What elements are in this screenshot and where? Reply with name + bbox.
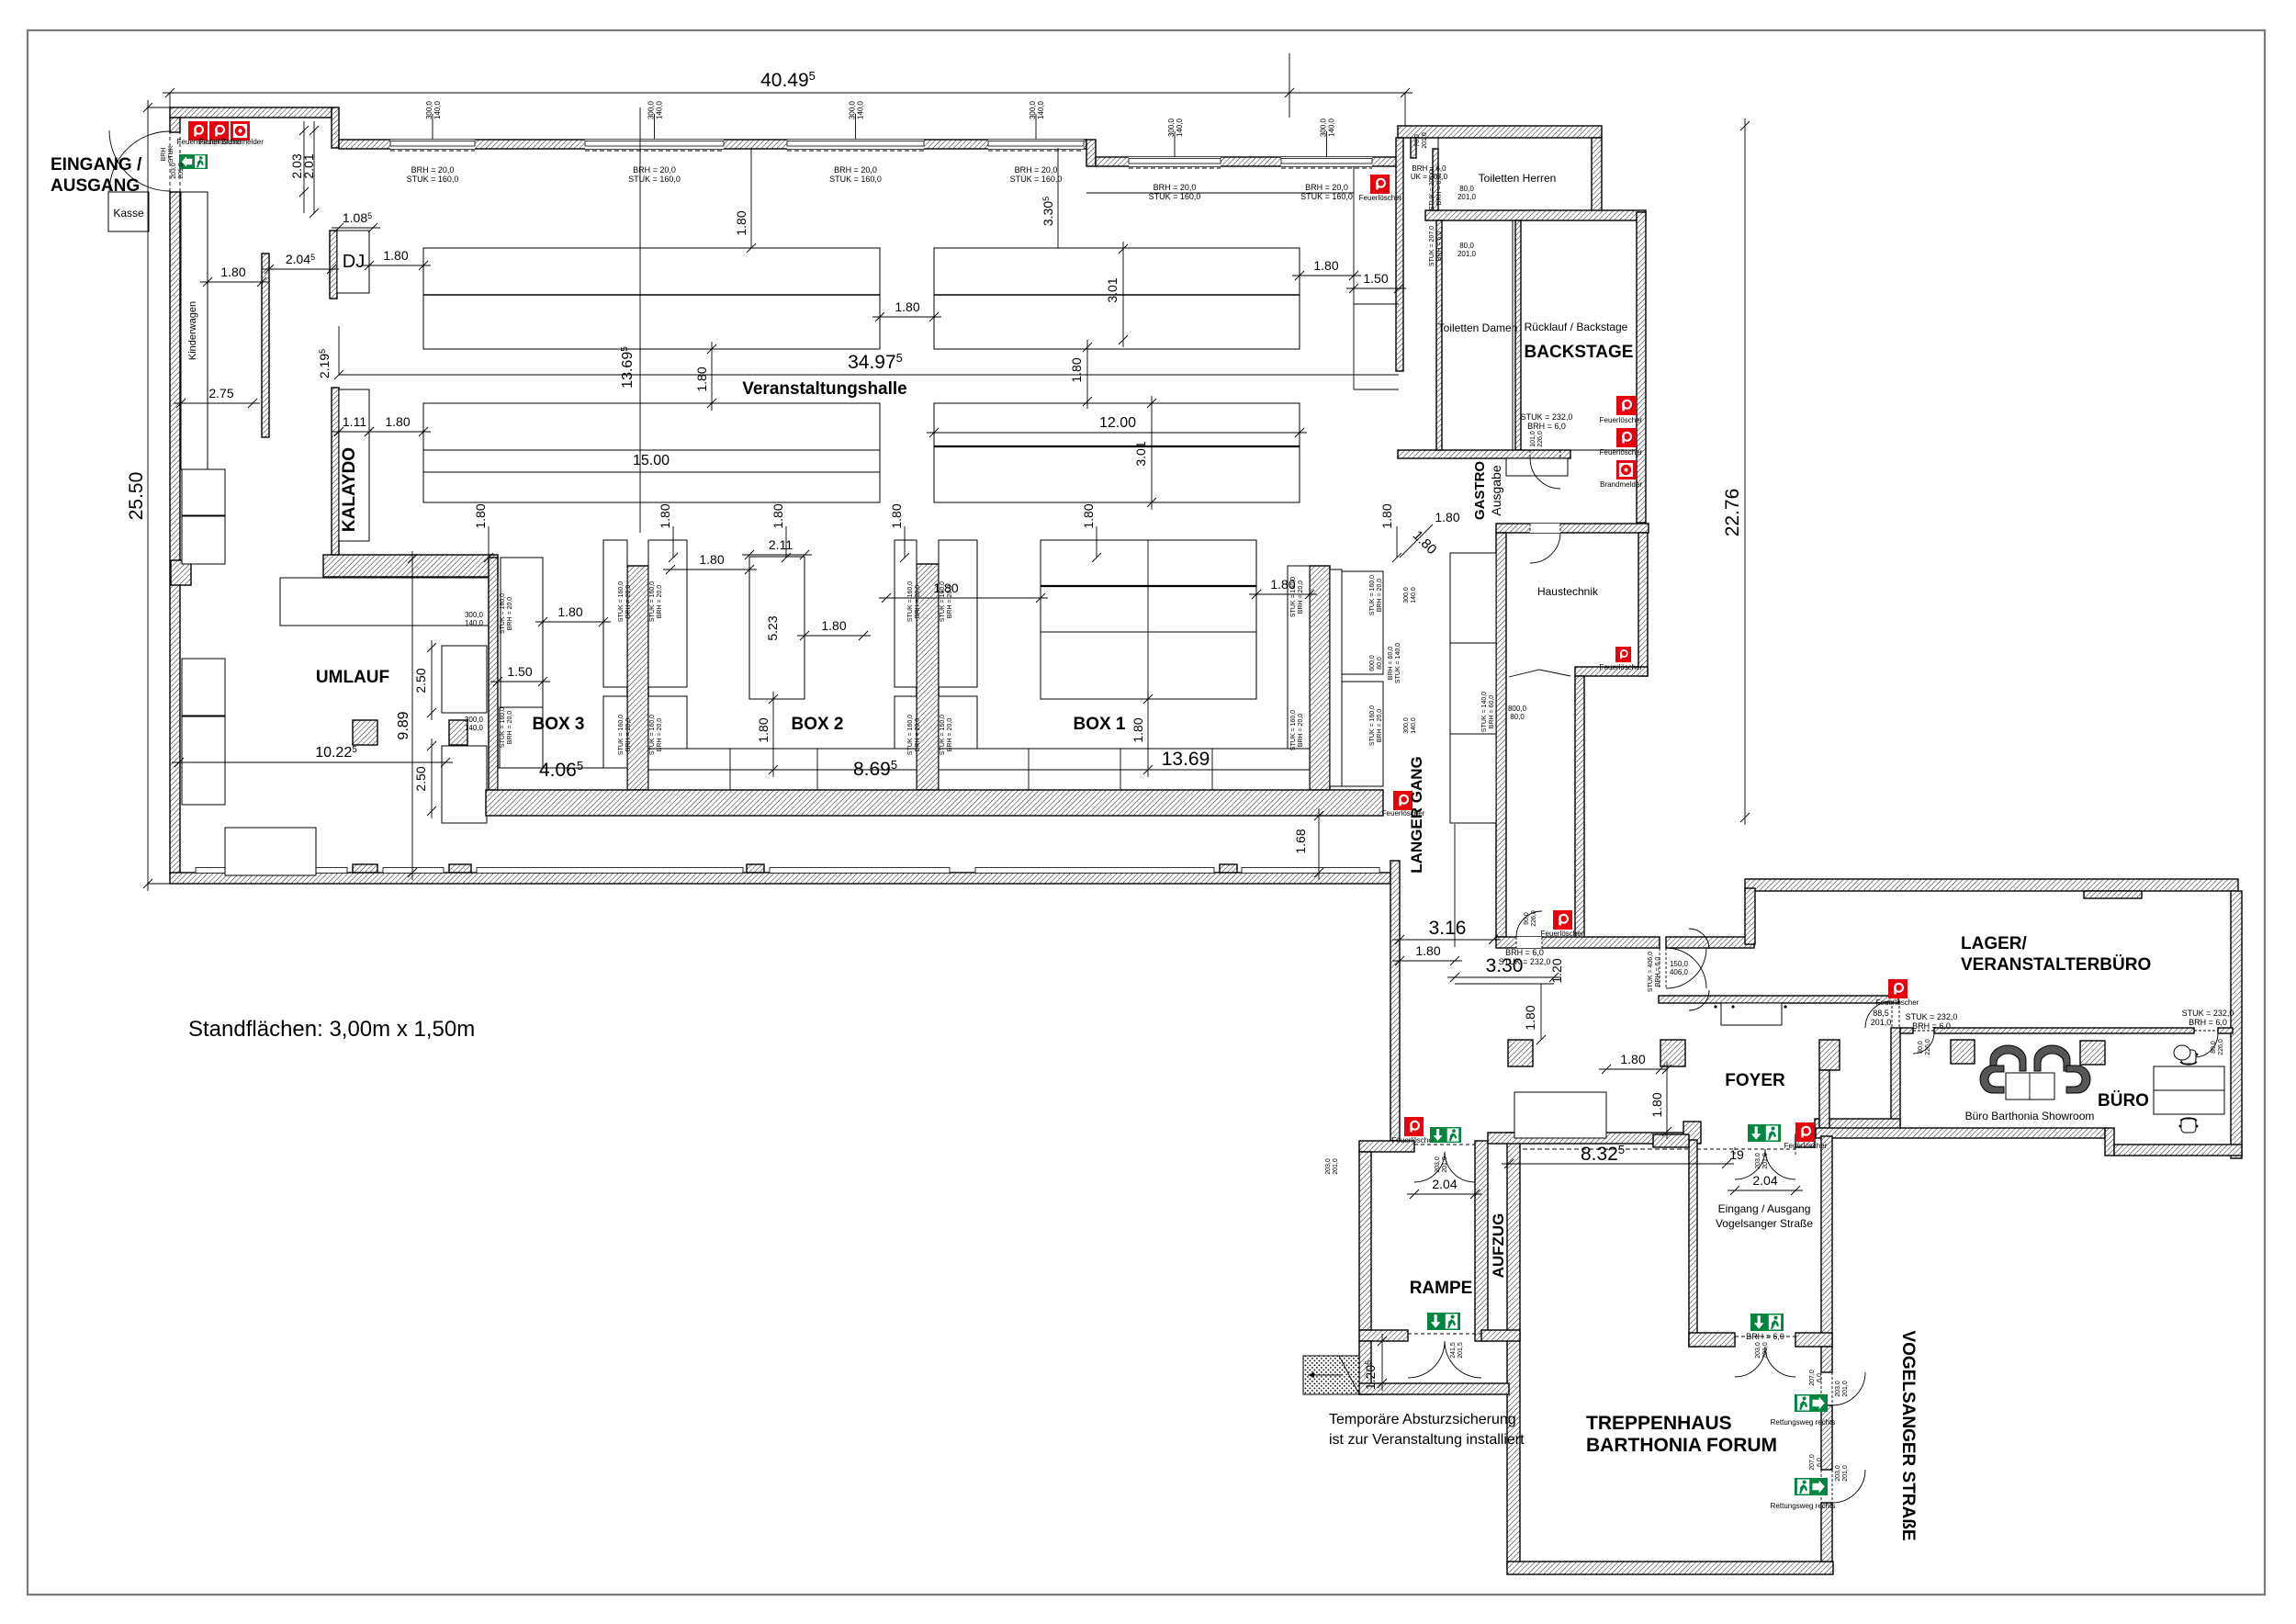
svg-text:STUK = 160,0: STUK = 160,0 [500, 593, 506, 634]
svg-text:300,0: 300,0 [849, 100, 857, 119]
dimension 2.50 dims [431, 640, 433, 720]
box2 central table 2.11 x 5.23 [749, 557, 805, 699]
exit sign at hall entrance [179, 154, 208, 169]
dimension 1.80 box2 dims [663, 569, 757, 570]
svg-text:800,0: 800,0 [1508, 705, 1527, 713]
svg-text:1.80: 1.80 [220, 265, 245, 279]
svg-text:19: 19 [1729, 1147, 1744, 1162]
fire extinguisher icon langer gang [1393, 791, 1412, 810]
buero bottom wall step [2105, 1128, 2114, 1156]
svg-text:6,0: 6,0 [1817, 1458, 1823, 1467]
svg-text:RAMPE: RAMPE [1410, 1279, 1473, 1298]
svg-text:BRH = 6,0: BRH = 6,0 [1527, 422, 1566, 431]
svg-text:BRH = 6,0: BRH = 6,0 [1505, 948, 1544, 957]
svg-text:STUK = 160,0: STUK = 160,0 [500, 707, 506, 748]
svg-text:1.80: 1.80 [821, 618, 846, 633]
svg-text:226,0: 226,0 [1531, 910, 1537, 927]
annotations at box1 east wall [1290, 577, 1304, 617]
svg-text:201,0: 201,0 [1458, 193, 1477, 201]
svg-text:80,0: 80,0 [2211, 1041, 2217, 1054]
exit sign rampe bottom [1427, 1313, 1460, 1330]
svg-text:Vogelsanger Straße: Vogelsanger Straße [1716, 1217, 1813, 1230]
rampe vestibule west wall [1359, 1341, 1371, 1394]
svg-text:13.695: 13.695 [620, 346, 636, 389]
hall top wall mid section [339, 140, 1086, 149]
svg-text:BRH = 20,0: BRH = 20,0 [507, 597, 513, 630]
entrance door arcs [109, 130, 170, 191]
svg-text:140,0: 140,0 [857, 100, 865, 119]
box3 bottom table row [498, 768, 627, 790]
treppenhaus east wall piece 2 [1821, 1405, 1832, 1470]
svg-text:1.80: 1.80 [385, 414, 410, 429]
svg-text:LAGER/: LAGER/ [1961, 934, 2028, 953]
svg-text:201,0: 201,0 [1842, 1465, 1849, 1482]
rampe bottom door dashed + arcs [1408, 1333, 1481, 1335]
table column [603, 696, 627, 781]
svg-text:140,0: 140,0 [465, 619, 484, 627]
svg-text:140,0: 140,0 [1037, 100, 1045, 119]
svg-text:140,0: 140,0 [433, 100, 442, 119]
svg-text:13.69: 13.69 [1162, 749, 1210, 770]
svg-text:BRH = 20,0: BRH = 20,0 [1377, 579, 1383, 612]
svg-text:BRH = 20,0: BRH = 20,0 [411, 165, 455, 175]
dj booth [337, 231, 369, 293]
treppenhaus north wall [1488, 1133, 1699, 1144]
svg-text:AUFZUG: AUFZUG [1490, 1213, 1507, 1279]
svg-text:AUSGANG: AUSGANG [51, 176, 140, 196]
svg-text:BRH = 6,0: BRH = 6,0 [1912, 1021, 1951, 1031]
dimension 3.01 lower [1151, 396, 1153, 510]
svg-text:BRH = 60,0: BRH = 60,0 [1388, 647, 1394, 680]
buero west door dashed [1891, 1001, 1893, 1028]
dimension 2.04_5 dj [262, 268, 339, 270]
dimension 2.75 [174, 402, 260, 404]
window in hall top wall [787, 140, 924, 149]
chair at buero NE door [2174, 1045, 2190, 1060]
lager east wall [2231, 891, 2242, 1158]
foyer north wall [1659, 996, 1898, 1003]
svg-text:201,0: 201,0 [1871, 1018, 1892, 1027]
svg-text:22.76: 22.76 [1722, 489, 1743, 537]
table column [939, 696, 977, 781]
svg-text:1.80: 1.80 [756, 717, 771, 742]
table below divider band [280, 578, 497, 626]
corridor tables along gastro side [1450, 553, 1496, 643]
svg-text:300,0: 300,0 [465, 716, 484, 724]
svg-text:STUK = 160,0: STUK = 160,0 [649, 581, 656, 622]
vestibule bottom wall west [1689, 1333, 1735, 1347]
dimension 1.50 strip [1346, 288, 1406, 289]
buero desk [2154, 1066, 2224, 1114]
kasse counter [108, 192, 149, 231]
dimension 3.16 [1392, 939, 1501, 941]
svg-text:STUK = 207,0: STUK = 207,0 [1429, 226, 1435, 266]
svg-text:1.80: 1.80 [1620, 1052, 1645, 1066]
svg-text:BRH = 20,0: BRH = 20,0 [507, 711, 513, 744]
buero bottom wall west [1816, 1128, 2105, 1138]
svg-text:1.80: 1.80 [473, 503, 488, 528]
left wall pilaster block [171, 560, 191, 585]
svg-text:12.00: 12.00 [1099, 415, 1136, 431]
svg-text:1.80: 1.80 [1523, 1005, 1537, 1030]
svg-text:201,0: 201,0 [1442, 1156, 1448, 1173]
svg-text:BOX 2: BOX 2 [791, 715, 843, 734]
table column [648, 540, 687, 687]
svg-text:300,0: 300,0 [425, 100, 433, 119]
svg-text:TREPPENHAUS: TREPPENHAUS [1586, 1413, 1732, 1434]
aufzug west wall [1475, 1141, 1488, 1341]
svg-text:25.50: 25.50 [126, 472, 147, 521]
tables east of box1 wall [1342, 571, 1383, 674]
umlauf pillar 2 [449, 720, 467, 745]
svg-text:226,0: 226,0 [2218, 1039, 2224, 1055]
svg-text:BOX 1: BOX 1 [1073, 715, 1125, 734]
annotations lager buero doors [1871, 1009, 1892, 1027]
buero north door opening dashed [1913, 1030, 1934, 1032]
svg-text:STUK = 160,0: STUK = 160,0 [649, 715, 656, 755]
svg-text:BRH = 6,0: BRH = 6,0 [1746, 1332, 1784, 1341]
svg-text:80,0: 80,0 [1510, 713, 1525, 721]
bottom wall pilaster [1220, 864, 1237, 873]
dimension 1.80 foyer pillars [1599, 1068, 1668, 1070]
svg-text:BRH = 6,0: BRH = 6,0 [1436, 175, 1443, 206]
svg-text:Ausgabe: Ausgabe [1489, 465, 1503, 515]
box2 bottom table row [648, 749, 917, 790]
haustechnik top wall [1496, 524, 1649, 533]
lager top wall notch [2084, 891, 2142, 898]
svg-text:201,0: 201,0 [1762, 1342, 1769, 1359]
lager south-west door arcs [1689, 929, 1709, 949]
rampe bottom wall west piece [1359, 1330, 1408, 1341]
svg-text:300,0: 300,0 [1029, 100, 1037, 119]
rampe top wall west piece [1359, 1141, 1414, 1152]
svg-text:GASTRO: GASTRO [1472, 461, 1488, 521]
haustechnik folding door chevron [1509, 670, 1570, 677]
svg-text:STUK = 160,0: STUK = 160,0 [1369, 705, 1376, 746]
dimension 1.80 dj right [362, 265, 431, 266]
svg-text:BRH = 20,0: BRH = 20,0 [947, 718, 953, 751]
svg-text:207,0: 207,0 [1809, 1370, 1816, 1386]
svg-text:201,0: 201,0 [1842, 1381, 1849, 1397]
foyer east L-wall bottom [1819, 1070, 1829, 1128]
svg-text:1.20: 1.20 [1549, 958, 1564, 983]
dimension 1.80 vertical mid-left [711, 342, 713, 411]
box1 central table block [1041, 540, 1256, 699]
svg-text:Feuerlöscher: Feuerlöscher [1600, 448, 1643, 457]
svg-text:UMLAUF: UMLAUF [316, 668, 389, 687]
svg-text:140,0: 140,0 [1176, 118, 1184, 137]
svg-text:BRH = 20,0: BRH = 20,0 [834, 165, 877, 175]
svg-text:BRH = 20,0: BRH = 20,0 [915, 718, 921, 751]
foyer south wall east of vestibule door [1795, 1134, 1815, 1147]
svg-text:BRH = 20,0: BRH = 20,0 [633, 165, 676, 175]
showroom armchair 1 [1990, 1045, 2026, 1071]
svg-text:Kinderwagen: Kinderwagen [187, 301, 198, 360]
svg-text:STUK = 160,0: STUK = 160,0 [1010, 175, 1063, 184]
svg-text:201,0: 201,0 [178, 163, 185, 179]
door arc [1666, 948, 1706, 988]
dimension 40.49_5 top [163, 92, 1412, 94]
hall top wall step at x=1183 [1086, 140, 1096, 166]
dimension 1.80 between upper tables [872, 316, 941, 318]
svg-text:6,0: 6,0 [1817, 1373, 1823, 1382]
table column [895, 696, 917, 781]
buero north wall west stub [1900, 1028, 1913, 1033]
dimension 1.80 box3 [535, 621, 611, 623]
dimension 13.69_5 vertical through hall [639, 107, 641, 533]
corridor bottom wall west piece [1496, 937, 1660, 948]
fire extinguisher icon at entrance 2 [209, 121, 229, 141]
rampe top door dashed [1413, 1141, 1415, 1152]
svg-text:STUK = 160,0: STUK = 160,0 [618, 715, 625, 755]
svg-text:101,0: 101,0 [1530, 431, 1536, 447]
fire extinguisher icon foyer south [1795, 1122, 1815, 1142]
svg-text:BACKSTAGE: BACKSTAGE [1525, 343, 1634, 362]
dimension 1.11 kalaydo [332, 431, 377, 433]
svg-text:STUK = 140,0: STUK = 140,0 [1481, 692, 1488, 732]
svg-text:201,0: 201,0 [1762, 1153, 1769, 1169]
svg-text:10.225: 10.225 [315, 745, 357, 761]
toiletten damen room outline [1442, 220, 1513, 450]
svg-text:Feuerlöscher: Feuerlöscher [1876, 998, 1919, 1007]
dimension 1.80 verticals from top wall [750, 148, 752, 248]
svg-text:3.01: 3.01 [1133, 441, 1148, 466]
toilets bottom wall [1398, 450, 1570, 458]
kalaydo booth [339, 389, 369, 541]
svg-text:140,0: 140,0 [465, 724, 484, 732]
langer gang west wall [1390, 861, 1400, 1141]
fire extinguisher icon corridor door [1553, 910, 1572, 930]
corridor inner line [1454, 824, 1456, 947]
svg-text:STUK = 160,0: STUK = 160,0 [628, 175, 681, 184]
table column [1288, 566, 1310, 781]
svg-text:1.80: 1.80 [557, 604, 582, 619]
tables east of box1 wall lower [1342, 682, 1383, 786]
lager top wall [1745, 879, 2238, 891]
double door to foyer vestibule dashed [1659, 948, 1660, 988]
svg-text:2.01: 2.01 [301, 153, 316, 178]
svg-text:2.75: 2.75 [208, 386, 233, 400]
fire extinguisher icon rampe [1404, 1117, 1424, 1136]
backstage block top wall [1398, 126, 1602, 138]
svg-text:STUK = 160,0: STUK = 160,0 [1290, 710, 1297, 750]
svg-text:BRH = 20,0: BRH = 20,0 [947, 585, 953, 618]
svg-text:Kasse: Kasse [113, 207, 144, 220]
svg-text:300,0: 300,0 [1320, 118, 1328, 137]
dimension 8.32_5 [1502, 1163, 1734, 1165]
treppenhaus west wall [1507, 1133, 1520, 1567]
svg-text:DJ: DJ [343, 252, 365, 272]
annotations street exits [1809, 1370, 1823, 1386]
table at foyer north wall [1721, 1003, 1782, 1025]
vestibule west wall [1689, 1140, 1697, 1347]
svg-text:Rettungsweg rechts: Rettungsweg rechts [1771, 1418, 1836, 1427]
hall top wall west section [170, 107, 332, 118]
dimension lines foyer corridor [1392, 960, 1462, 962]
window sills along bottom wall [196, 868, 347, 874]
svg-text:BRH = 20,0: BRH = 20,0 [1154, 183, 1197, 192]
svg-text:Büro Barthonia Showroom: Büro Barthonia Showroom [1965, 1110, 2095, 1122]
gastro counter [1506, 458, 1568, 476]
foyer stage table [1514, 1092, 1606, 1138]
svg-text:201,5: 201,5 [1458, 1342, 1464, 1359]
vestibule east wall [1821, 1136, 1832, 1347]
annotations toilets [1414, 132, 1428, 149]
dimension 10.22_5 [172, 761, 453, 763]
dj wall panel [330, 231, 337, 299]
svg-text:1.80: 1.80 [1649, 1092, 1664, 1117]
dimension 2.04 rampe [1407, 1193, 1482, 1195]
showroom side chair left [1980, 1066, 2004, 1093]
svg-text:2.04: 2.04 [1752, 1173, 1777, 1188]
svg-text:BRH = 60,0: BRH = 60,0 [1489, 695, 1495, 728]
table column [648, 696, 687, 781]
svg-text:Brandmelder: Brandmelder [1600, 480, 1642, 489]
svg-text:ist zur Veranstaltung installi: ist zur Veranstaltung installiert [1329, 1432, 1525, 1448]
dimension 1.08_5 dj [332, 227, 380, 229]
treppenhaus street exits dashed + arcs [1820, 1372, 1822, 1405]
rampe west wall [1359, 1152, 1371, 1330]
corridor south wall at buero [1815, 1119, 1900, 1132]
hall left wall [170, 192, 180, 874]
dimension 3.01 upper [1122, 242, 1124, 347]
boxes bottom wall [486, 790, 1383, 816]
umlauf pillar 1 [353, 720, 377, 745]
svg-text:1.80: 1.80 [889, 503, 904, 528]
svg-text:BRH = 20,0: BRH = 20,0 [1377, 709, 1383, 742]
corridor east wall [1575, 676, 1584, 942]
svg-text:VERANSTALTERBÜRO: VERANSTALTERBÜRO [1961, 955, 2151, 975]
bottom wall pilaster [353, 864, 377, 873]
lower-right table group [934, 403, 1300, 502]
svg-text:BRH = 6,0: BRH = 6,0 [1655, 957, 1661, 987]
annotation corridor west [1481, 692, 1495, 732]
table slot [1330, 570, 1342, 786]
svg-text:1.50: 1.50 [1363, 271, 1388, 286]
svg-text:STUK = 160,0: STUK = 160,0 [1369, 575, 1376, 615]
showroom armchair 2 [2034, 1045, 2070, 1071]
svg-text:88,5: 88,5 [1873, 1009, 1889, 1018]
shelves along left wall [182, 469, 225, 515]
corridor bottom door opening [1516, 937, 1542, 948]
svg-text:207,0: 207,0 [1809, 1454, 1816, 1471]
svg-text:80,0: 80,0 [1459, 242, 1474, 250]
box3 west wall [489, 558, 498, 790]
svg-text:BÜRO: BÜRO [2098, 1091, 2149, 1111]
svg-text:80,0: 80,0 [1459, 185, 1474, 193]
svg-text:Feuerlöscher: Feuerlöscher [1359, 194, 1402, 202]
buero north-east door opening [2194, 1030, 2218, 1032]
svg-text:STUK = 232,0: STUK = 232,0 [2182, 1009, 2234, 1018]
svg-text:241,5: 241,5 [1450, 1342, 1457, 1359]
svg-text:Feuerlöscher: Feuerlöscher [1784, 1142, 1828, 1150]
svg-text:140,0: 140,0 [1411, 717, 1417, 734]
buero north wall [1934, 1028, 2194, 1033]
svg-text:STUK = 160,0: STUK = 160,0 [618, 581, 625, 622]
table column [939, 540, 977, 687]
svg-text:Brandmelder: Brandmelder [221, 138, 264, 146]
fire extinguisher icon haustechnik [1615, 647, 1631, 662]
dimension 1.50 box3 [490, 681, 550, 682]
freestanding wall bar near kinderwagen [262, 254, 269, 437]
svg-text:STUK = 160,0: STUK = 160,0 [940, 715, 946, 755]
svg-text:15.00: 15.00 [633, 453, 670, 468]
entrance door opening dashed [169, 130, 171, 192]
svg-text:1.80: 1.80 [694, 367, 709, 391]
svg-text:Rettungsweg rechts: Rettungsweg rechts [1771, 1502, 1836, 1510]
svg-text:1.50: 1.50 [507, 664, 532, 679]
svg-text:BRH: BRH [161, 148, 167, 162]
box3 lower table [500, 707, 543, 770]
buero bottom wall east [2114, 1145, 2242, 1156]
svg-text:BRH = 20,0: BRH = 20,0 [625, 585, 632, 618]
svg-text:1.80: 1.80 [1131, 717, 1145, 742]
backstage room outline [1521, 220, 1637, 450]
svg-text:Temporäre Absturzsicherung: Temporäre Absturzsicherung [1329, 1412, 1516, 1427]
svg-text:Veranstaltungshalle: Veranstaltungshalle [742, 379, 907, 399]
svg-text:STUK = 160,0: STUK = 160,0 [1149, 192, 1201, 201]
door arc [1666, 948, 1706, 988]
svg-text:3.16: 3.16 [1429, 918, 1467, 939]
svg-text:BRH = 20,0: BRH = 20,0 [1015, 165, 1058, 175]
haustechnik door opening [1530, 524, 1560, 533]
corridor bottom wall east piece [1666, 937, 1754, 948]
svg-text:1.80: 1.80 [1081, 503, 1096, 528]
fire extinguisher icon top wall east [1370, 175, 1390, 194]
svg-text:KALAYDO: KALAYDO [340, 447, 359, 532]
buero pillar 2 [2080, 1041, 2105, 1065]
dimension 9.89 [411, 551, 413, 880]
svg-text:BRH = 20,0: BRH = 20,0 [1298, 581, 1304, 614]
hall top wall east section [1096, 157, 1399, 166]
exit sign street 1 [1795, 1394, 1828, 1412]
svg-text:Feuerlöscher: Feuerlöscher [1600, 663, 1643, 671]
exit sign vestibule top [1748, 1124, 1781, 1142]
svg-text:203,0: 203,0 [1325, 1158, 1332, 1175]
upper-left table group [423, 248, 880, 349]
window in hall top wall east [1281, 157, 1372, 166]
rampe vestibule bottom wall [1359, 1383, 1509, 1394]
haustechnik east wall upper [1638, 533, 1648, 676]
buero pillar 1 [1951, 1040, 1975, 1064]
ledge strip below top wall east [1086, 192, 1354, 194]
svg-text:STUK: STUK [168, 145, 174, 163]
svg-text:2.50: 2.50 [413, 668, 428, 693]
svg-text:300,0: 300,0 [1403, 717, 1410, 734]
svg-text:VOGELSANGER STRAßE: VOGELSANGER STRAßE [1898, 1330, 1918, 1540]
svg-text:1.80: 1.80 [1313, 258, 1338, 273]
fire extinguisher icon at entrance 1 [188, 121, 208, 141]
svg-text:FOYER: FOYER [1725, 1071, 1785, 1090]
buero chair bottom [2179, 1118, 2199, 1133]
dimension 1.80 box1 dims [879, 597, 1048, 599]
dimension 2.03 2.01 at entrance [303, 121, 305, 213]
buero north wall east stub [2218, 1028, 2233, 1033]
window in hall top wall [988, 140, 1084, 149]
treppenhaus east wall piece 3 [1821, 1503, 1832, 1562]
lager west wall [1745, 888, 1755, 944]
svg-text:203,0: 203,0 [1755, 1342, 1761, 1359]
svg-text:LANGER GANG: LANGER GANG [1408, 756, 1425, 874]
svg-text:STUK = 160,0: STUK = 160,0 [907, 581, 914, 622]
vestibule top door dashed + arcs [1734, 1147, 1736, 1155]
dimension 34.97_5 across hall [339, 374, 1399, 376]
vestibule bottom door dashed + arcs [1735, 1336, 1795, 1337]
svg-text:1.80: 1.80 [383, 248, 408, 263]
svg-text:1.11: 1.11 [343, 414, 366, 429]
svg-text:Haustechnik: Haustechnik [1537, 585, 1599, 598]
svg-text:BRH = 20,0: BRH = 20,0 [1305, 183, 1348, 192]
